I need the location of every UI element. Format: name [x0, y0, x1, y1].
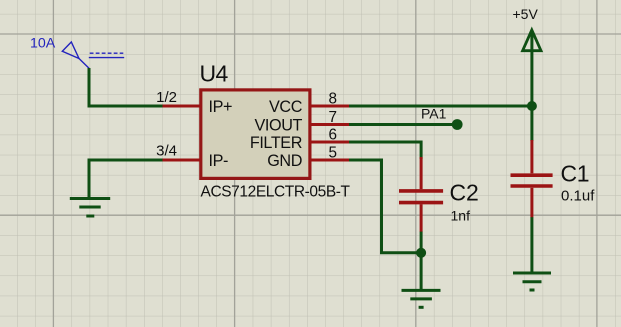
wire +5V rail to C1 [530, 106, 533, 141]
IC U4 ACS712 body [201, 90, 310, 178]
wire pin7 to PA1 [349, 123, 457, 126]
svg-text:6: 6 [329, 127, 338, 144]
svg-text:IP+: IP+ [209, 98, 233, 116]
svg-text:PA1: PA1 [421, 106, 447, 122]
capacitor C1 [511, 140, 553, 218]
svg-text:GND: GND [267, 152, 302, 170]
wire pin8 to +5V rail [349, 105, 532, 108]
ground (left, under IP-) [70, 199, 110, 217]
wire junction to ground [420, 253, 423, 289]
pin 7 VIOUT [255, 109, 349, 134]
power +5V symbol [513, 6, 542, 106]
svg-text:C1: C1 [561, 160, 590, 186]
svg-text:0.1uf: 0.1uf [561, 188, 595, 205]
svg-text:+5V: +5V [513, 6, 539, 22]
ground (under C2) [402, 290, 441, 307]
svg-text:U4: U4 [200, 61, 229, 87]
wire pin5 GND to junction [349, 160, 421, 253]
svg-text:ACS712ELCTR-05B-T: ACS712ELCTR-05B-T [201, 183, 351, 200]
svg-text:C2: C2 [450, 179, 479, 205]
svg-text:3/4: 3/4 [156, 143, 177, 160]
svg-text:FILTER: FILTER [250, 134, 302, 152]
svg-text:5: 5 [329, 145, 338, 162]
pin 8 VCC [269, 91, 349, 117]
svg-text:1nf: 1nf [451, 208, 471, 224]
svg-text:1/2: 1/2 [156, 89, 177, 106]
svg-text:IP-: IP- [209, 152, 229, 170]
wire pin6 to C2 [349, 142, 421, 159]
current probe label 10A [30, 36, 56, 52]
svg-text:8: 8 [329, 91, 338, 108]
wire probe to IP+ [89, 68, 163, 106]
capacitor C2 [399, 157, 443, 232]
pin 5 GND [267, 145, 349, 171]
current probe symbol [62, 42, 124, 68]
wire C1 to ground [530, 217, 533, 272]
wire C2 to junction [420, 232, 423, 253]
wire IP- to ground [89, 160, 163, 198]
pin 1/2 IP+ [156, 89, 232, 116]
pin 6 FILTER [250, 127, 349, 152]
svg-text:VIOUT: VIOUT [255, 116, 303, 134]
svg-text:VCC: VCC [269, 98, 303, 116]
node PA1 [421, 106, 463, 130]
junction under C2 [416, 248, 426, 258]
ground (under C1) [513, 273, 551, 290]
pin 3/4 IP- [156, 143, 228, 171]
svg-text:7: 7 [329, 109, 338, 126]
svg-text:10A: 10A [30, 36, 56, 52]
junction at +5V rail [527, 101, 537, 111]
